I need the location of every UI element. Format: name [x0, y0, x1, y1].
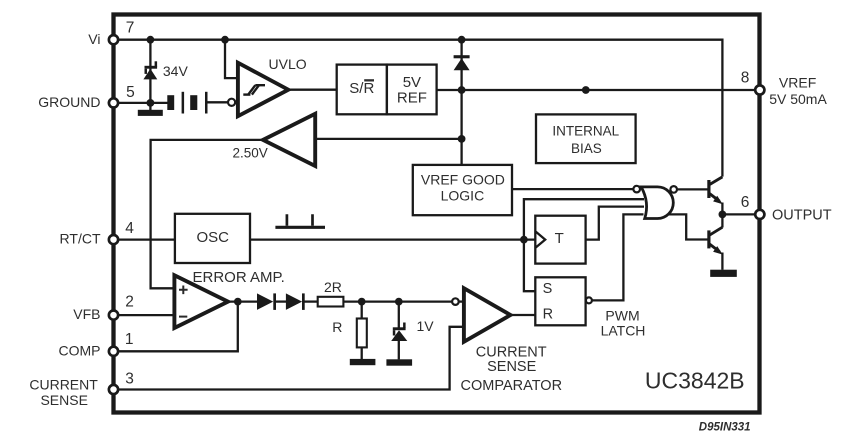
svg-text:T: T	[555, 230, 564, 247]
svg-text:1V: 1V	[417, 318, 435, 334]
svg-text:VREF GOOD: VREF GOOD	[421, 171, 505, 187]
svg-text:CURRENT: CURRENT	[29, 377, 98, 393]
svg-text:INTERNAL: INTERNAL	[552, 124, 619, 139]
svg-text:PWM: PWM	[605, 307, 639, 323]
svg-text:4: 4	[125, 220, 134, 237]
svg-text:2: 2	[125, 293, 134, 310]
svg-text:SENSE: SENSE	[40, 392, 87, 408]
svg-text:S: S	[543, 281, 553, 297]
svg-text:BIAS: BIAS	[571, 141, 602, 156]
svg-text:REF: REF	[397, 89, 427, 106]
svg-text:GROUND: GROUND	[38, 94, 100, 110]
svg-text:UC3842B: UC3842B	[645, 367, 745, 393]
svg-text:CURRENT: CURRENT	[476, 344, 547, 360]
svg-text:SENSE: SENSE	[487, 359, 536, 375]
svg-text:5V 50mA: 5V 50mA	[769, 91, 827, 107]
svg-text:OSC: OSC	[196, 229, 229, 246]
svg-text:UVLO: UVLO	[269, 56, 307, 72]
svg-text:6: 6	[741, 194, 750, 211]
svg-text:34V: 34V	[163, 63, 189, 79]
svg-text:RT/CT: RT/CT	[60, 231, 101, 247]
svg-text:S/R: S/R	[349, 80, 374, 97]
svg-text:7: 7	[126, 19, 135, 36]
svg-text:D95IN331: D95IN331	[699, 422, 751, 434]
svg-text:R: R	[332, 319, 342, 335]
svg-text:2.50V: 2.50V	[233, 146, 268, 161]
svg-text:OUTPUT: OUTPUT	[772, 208, 832, 224]
svg-text:8: 8	[741, 70, 750, 87]
svg-text:LATCH: LATCH	[601, 323, 646, 339]
svg-text:COMPARATOR: COMPARATOR	[461, 378, 563, 394]
svg-text:Vi: Vi	[88, 31, 100, 47]
svg-text:2R: 2R	[324, 279, 342, 295]
svg-text:ERROR AMP.: ERROR AMP.	[193, 269, 285, 286]
svg-text:VFB: VFB	[73, 306, 100, 322]
svg-text:5: 5	[126, 84, 135, 101]
svg-text:R: R	[543, 307, 553, 323]
svg-text:3: 3	[125, 370, 134, 387]
svg-text:VREF: VREF	[779, 75, 816, 91]
svg-text:COMP: COMP	[59, 342, 101, 358]
svg-text:1: 1	[125, 331, 134, 348]
svg-text:LOGIC: LOGIC	[441, 188, 485, 204]
